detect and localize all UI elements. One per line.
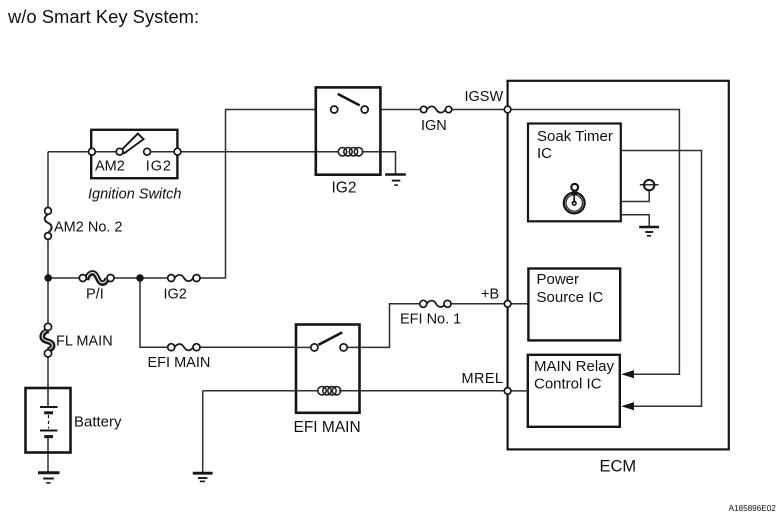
svg-text:EFI No. 1: EFI No. 1 <box>400 311 461 327</box>
svg-text:EFI MAIN: EFI MAIN <box>148 355 211 371</box>
svg-text:IG2: IG2 <box>164 287 187 303</box>
svg-text:P/I: P/I <box>86 287 104 303</box>
svg-text:A185896E02: A185896E02 <box>729 504 777 513</box>
svg-text:+B: +B <box>481 286 499 302</box>
svg-text:MAIN Relay: MAIN Relay <box>534 358 615 375</box>
svg-text:MREL: MREL <box>462 371 504 387</box>
svg-text:Soak Timer: Soak Timer <box>537 128 613 145</box>
svg-text:ECM: ECM <box>600 457 637 475</box>
svg-text:Power: Power <box>537 271 580 288</box>
svg-text:IG2: IG2 <box>332 180 357 197</box>
svg-text:IG2: IG2 <box>146 159 172 175</box>
svg-text:IGSW: IGSW <box>465 89 504 105</box>
svg-text:Control IC: Control IC <box>534 376 602 393</box>
svg-text:EFI MAIN: EFI MAIN <box>294 419 361 436</box>
svg-text:FL MAIN: FL MAIN <box>56 334 113 350</box>
svg-text:Ignition Switch: Ignition Switch <box>88 187 182 203</box>
svg-text:Battery: Battery <box>74 413 122 430</box>
svg-text:IGN: IGN <box>421 118 447 134</box>
svg-text:AM2 No. 2: AM2 No. 2 <box>54 220 123 236</box>
svg-text:w/o Smart Key System:: w/o Smart Key System: <box>7 6 199 27</box>
svg-text:IC: IC <box>537 145 552 162</box>
svg-text:Source IC: Source IC <box>537 289 604 306</box>
svg-text:AM2: AM2 <box>95 159 125 175</box>
